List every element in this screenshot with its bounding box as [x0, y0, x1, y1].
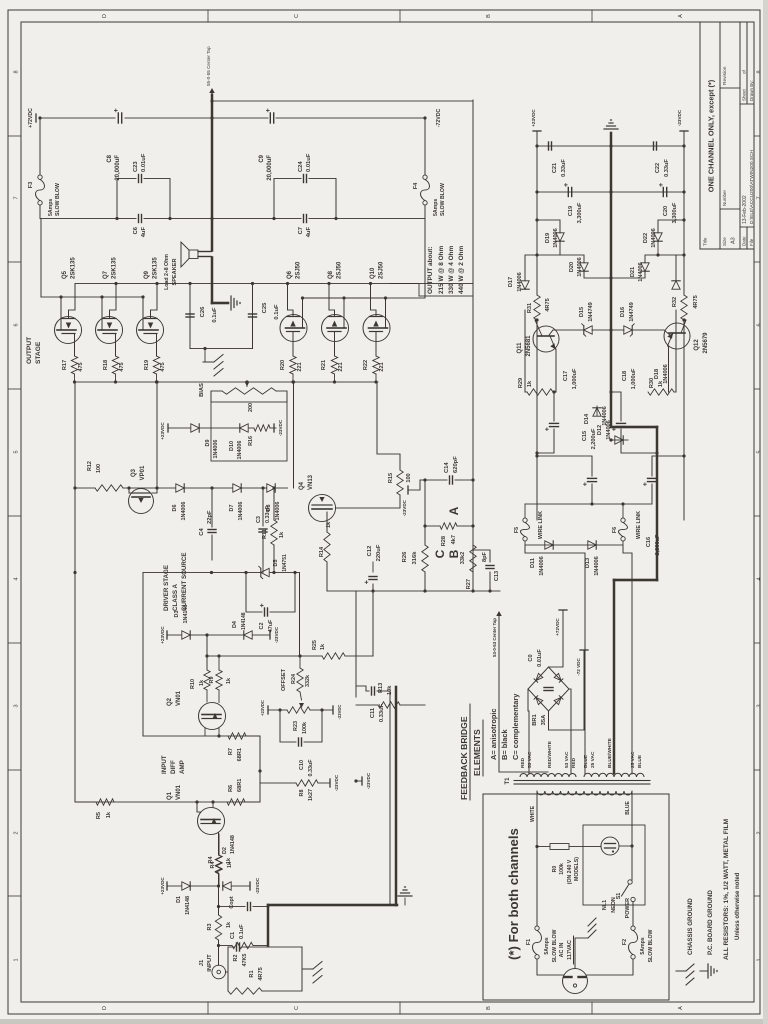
svg-text:2: 2: [757, 831, 763, 834]
svg-text:VN13: VN13: [308, 474, 314, 490]
svg-text:+23VDC: +23VDC: [160, 877, 165, 895]
-23VDC stub near C11: [361, 777, 363, 785]
transistor Q12 2N5679: [664, 323, 690, 349]
svg-text:1N4006: 1N4006: [213, 440, 219, 459]
transistor Q11 2N5681: [533, 326, 559, 352]
resistor R13 10k: [356, 704, 378, 706]
chassis ground at AC inlet: [575, 938, 588, 969]
svg-text:+23VDC: +23VDC: [531, 109, 536, 127]
output info box: [212, 100, 473, 102]
svg-text:8pF: 8pF: [482, 551, 488, 562]
svg-text:2SK135: 2SK135: [153, 257, 159, 279]
svg-text:C18: C18: [622, 371, 628, 381]
resistor R14 1k: [324, 532, 330, 562]
svg-text:OUTPUT: OUTPUT: [26, 337, 33, 364]
svg-text:Q4: Q4: [299, 481, 305, 490]
svg-text:R14: R14: [319, 546, 325, 557]
svg-text:5: 5: [14, 450, 20, 453]
svg-text:1k: 1k: [527, 380, 533, 387]
svg-text:1N4006: 1N4006: [663, 364, 669, 384]
svg-text:620pF: 620pF: [453, 456, 459, 473]
legend chassis ground symbol: [676, 970, 686, 972]
diode D17 1N4006: [525, 391, 527, 393]
svg-text:D14: D14: [584, 413, 590, 424]
svg-text:1k: 1k: [320, 644, 326, 650]
title block frame: [700, 22, 754, 249]
svg-text:2SJ50: 2SJ50: [379, 261, 385, 279]
transistor Q4 VN13: [309, 495, 336, 522]
svg-text:C20: C20: [663, 206, 669, 216]
capacitor C25 0.1uF: [252, 284, 254, 349]
speaker load symbol: [189, 250, 198, 259]
svg-text:475: 475: [119, 362, 125, 371]
svg-text:C25: C25: [262, 302, 268, 313]
capacitor C17 1000uF: [537, 429, 554, 453]
svg-text:-23VDC: -23VDC: [337, 705, 342, 720]
svg-text:R23: R23: [293, 721, 299, 731]
svg-text:1: 1: [14, 958, 20, 961]
resistor R30 1k: [667, 346, 670, 392]
svg-text:0.1uF: 0.1uF: [212, 307, 218, 323]
thick ground bus 55-0-55 center tap: [211, 258, 214, 304]
svg-text:2SJ50: 2SJ50: [296, 261, 302, 279]
svg-text:NL1: NL1: [602, 900, 608, 910]
capacitor C7 4uF: [303, 215, 305, 223]
svg-text:BLUE: BLUE: [625, 801, 631, 815]
capacitor C18 1000uF: [621, 429, 657, 453]
svg-text:DRIVER STAGE: DRIVER STAGE: [163, 565, 170, 611]
svg-text:(*) For both channels: (*) For both channels: [506, 828, 521, 960]
Q2 source wires: [204, 728, 206, 736]
svg-text:RED/WHITE: RED/WHITE: [547, 740, 553, 768]
svg-text:215 W @ 8 Ohm: 215 W @ 8 Ohm: [438, 246, 445, 294]
svg-text:Q1: Q1: [167, 791, 173, 800]
svg-text:CLASS A: CLASS A: [172, 584, 179, 611]
bias chain -23VDC: [273, 424, 275, 432]
svg-text:VN01: VN01: [176, 784, 182, 800]
svg-text:+72VDC: +72VDC: [28, 108, 34, 128]
svg-text:D21: D21: [630, 267, 636, 277]
svg-text:R26: R26: [402, 551, 408, 562]
wire F4 to output stage feed: [336, 205, 425, 219]
svg-text:4R75: 4R75: [545, 298, 551, 311]
Q1 drain bus: [75, 801, 260, 803]
svg-text:OUTPUT about:: OUTPUT about:: [427, 246, 434, 294]
svg-text:1k: 1k: [226, 858, 232, 864]
svg-text:Q12: Q12: [694, 339, 700, 351]
svg-text:F5: F5: [514, 527, 520, 533]
svg-text:R24: R24: [291, 674, 297, 684]
wire output box to bus: [210, 99, 213, 102]
svg-text:CURRENT SOURCE: CURRENT SOURCE: [181, 553, 188, 611]
svg-text:10k: 10k: [387, 685, 393, 695]
svg-text:53 VAC: 53 VAC: [527, 751, 533, 768]
capacitor C22 0.33uF: [611, 145, 684, 147]
svg-text:C3: C3: [256, 516, 262, 523]
zener D15 1N4749: [553, 329, 583, 331]
svg-text:C: C: [433, 549, 447, 558]
svg-text:-23VDC: -23VDC: [402, 499, 407, 516]
resistor R2 47K5: [217, 944, 220, 947]
filter caps C15 C16: [524, 504, 526, 518]
supply filter line with C6 C7: [117, 218, 136, 220]
input jack J1: [212, 965, 226, 979]
driver line to offset divider: [299, 573, 301, 657]
resistor R9 1k: [218, 690, 220, 703]
for both channels box: [483, 794, 669, 1000]
svg-text:F2: F2: [622, 939, 628, 945]
svg-text:4uF: 4uF: [141, 227, 147, 238]
svg-text:1N4749: 1N4749: [629, 302, 635, 322]
svg-text:53 VAC: 53 VAC: [564, 751, 570, 768]
svg-text:Revision: Revision: [722, 66, 728, 85]
capacitor C9 20,000uF: [212, 117, 268, 119]
svg-text:47K5: 47K5: [242, 954, 248, 967]
P-channel drain bus: [302, 297, 387, 299]
svg-text:Drawn By:: Drawn By:: [749, 80, 754, 101]
diode D21 1N4006: [611, 271, 645, 278]
resistor R31 4R75: [534, 295, 540, 320]
svg-text:2: 2: [14, 831, 20, 834]
svg-text:C8: C8: [107, 154, 113, 162]
svg-text:Sheet: Sheet: [742, 88, 747, 101]
svg-text:A: A: [678, 14, 684, 18]
resistor R16 200: [254, 425, 270, 431]
svg-text:D:\ELE\ACCU200\ATWIN200.SCH: D:\ELE\ACCU200\ATWIN200.SCH: [749, 149, 755, 224]
svg-text:33k2: 33k2: [460, 552, 466, 564]
svg-text:13-Feb-2002: 13-Feb-2002: [742, 195, 748, 224]
svg-text:100k: 100k: [559, 863, 565, 875]
resistor R25 1k: [207, 655, 322, 657]
svg-text:R13: R13: [378, 683, 384, 693]
resistor R4 1k: [218, 874, 220, 886]
svg-text:R25: R25: [312, 640, 318, 650]
svg-text:D: D: [102, 14, 108, 18]
svg-text:25 VAC: 25 VAC: [590, 751, 596, 768]
svg-text:SLOW BLOW: SLOW BLOW: [440, 183, 446, 216]
R1 C1 input ground network: [226, 971, 229, 973]
switch S1 POWER: [628, 880, 632, 884]
svg-text:1: 1: [757, 958, 763, 961]
svg-text:2SK135: 2SK135: [71, 257, 77, 279]
diode D10 1N4006: [240, 424, 248, 432]
svg-text:5Amps: 5Amps: [433, 199, 439, 216]
svg-text:R9: R9: [209, 677, 215, 684]
svg-text:220uF: 220uF: [376, 544, 382, 561]
legend PCB ground symbol: [700, 970, 708, 972]
capacitor C12 220uF: [372, 584, 374, 656]
svg-text:7: 7: [757, 196, 763, 199]
svg-text:0.01uF: 0.01uF: [537, 649, 543, 667]
svg-text:WIRE LINK: WIRE LINK: [636, 511, 642, 539]
diode D9 1N4006: [191, 424, 199, 432]
svg-text:117VAC: 117VAC: [567, 940, 573, 960]
svg-text:A: A: [447, 506, 461, 515]
transformer secondary winding 53VAC: [520, 774, 548, 778]
svg-text:Q5: Q5: [62, 270, 68, 279]
svg-text:D17: D17: [508, 277, 514, 287]
svg-text:-23VDC: -23VDC: [278, 419, 283, 436]
svg-text:332k: 332k: [305, 675, 311, 687]
svg-text:D5: D5: [273, 560, 279, 567]
neon lamp box: [583, 825, 645, 905]
svg-text:2SK135: 2SK135: [112, 257, 118, 279]
feedback bridge bottom rail: [327, 590, 500, 592]
svg-text:C: C: [294, 1006, 300, 1010]
svg-text:221: 221: [297, 362, 303, 371]
svg-text:C= complementary: C= complementary: [511, 693, 520, 760]
long output feedback line: [472, 100, 474, 591]
capacitor C10 0.33uF: [280, 710, 296, 742]
svg-text:D: D: [102, 1006, 108, 1010]
svg-text:R0: R0: [552, 866, 558, 873]
diff common node wires: [245, 771, 260, 802]
svg-text:55-0-55 Center Tap: 55-0-55 Center Tap: [206, 46, 211, 86]
svg-text:330 W @ 4 Ohm: 330 W @ 4 Ohm: [448, 246, 455, 294]
svg-text:0.01uF: 0.01uF: [141, 153, 147, 172]
capacitor C13 8pF: [489, 572, 491, 591]
resistor R5 1k: [96, 799, 114, 805]
svg-text:2N5681: 2N5681: [526, 335, 532, 357]
bias trimmer network box: [211, 402, 287, 461]
svg-text:D3: D3: [174, 611, 180, 618]
transistor Q1 VN01: [198, 808, 225, 835]
wire +72V rail junction to F3: [39, 118, 41, 175]
svg-text:4R75: 4R75: [258, 967, 264, 980]
svg-text:Q6: Q6: [287, 270, 293, 279]
svg-text:B: B: [486, 14, 492, 18]
primary BLUE wire: [631, 791, 633, 846]
fuse F3: [38, 201, 42, 205]
svg-text:Number: Number: [722, 189, 727, 206]
svg-text:0.33uF: 0.33uF: [561, 159, 567, 177]
svg-text:MODELS): MODELS): [574, 857, 580, 881]
svg-text:8: 8: [14, 70, 20, 73]
diode clamp D1 D2 at input: [166, 882, 168, 890]
diff tail bus: [143, 735, 260, 737]
svg-text:R21: R21: [321, 360, 327, 370]
svg-text:-23VDC: -23VDC: [334, 774, 339, 791]
svg-text:R1: R1: [249, 970, 255, 977]
resistor R8 1k27: [260, 771, 296, 783]
svg-text:8: 8: [757, 70, 763, 73]
thick regulator ground rail: [610, 133, 613, 426]
svg-text:1N4749: 1N4749: [588, 302, 594, 322]
svg-text:S1: S1: [616, 893, 622, 900]
svg-text:100: 100: [96, 464, 102, 473]
zener D16 1N4749: [624, 326, 632, 334]
svg-text:2SJ50: 2SJ50: [337, 261, 343, 279]
svg-text:440 W @ 2 Ohm: 440 W @ 2 Ohm: [458, 246, 465, 294]
svg-text:INPUT: INPUT: [161, 755, 168, 774]
svg-text:D13: D13: [585, 558, 591, 568]
svg-text:Copt: Copt: [229, 896, 235, 908]
svg-text:SPEAKER: SPEAKER: [172, 258, 178, 285]
svg-text:STAGE: STAGE: [35, 341, 42, 364]
svg-text:D2: D2: [222, 847, 228, 854]
svg-text:B: B: [447, 549, 461, 558]
capacitor C21 0.33uF: [537, 145, 611, 147]
transistor Q3 VP01: [129, 489, 154, 514]
svg-text:25 VAC: 25 VAC: [630, 751, 636, 768]
transistor Q8 2SJ50: [322, 315, 349, 342]
svg-text:4: 4: [757, 577, 763, 580]
bias pot: [211, 391, 222, 402]
svg-text:316k: 316k: [412, 551, 418, 565]
svg-text:20,000uF: 20,000uF: [115, 155, 121, 181]
resistor R27 33k2: [470, 545, 476, 572]
svg-text:1N4006: 1N4006: [638, 262, 644, 282]
svg-text:C11: C11: [370, 707, 376, 718]
zone ticks horizontal margins: [207, 1002, 209, 1014]
fuse F1: [535, 955, 539, 959]
-23VDC rail: [680, 130, 688, 132]
svg-text:+23VDC: +23VDC: [260, 700, 265, 716]
svg-text:Q7: Q7: [103, 270, 109, 279]
svg-text:-23VDC: -23VDC: [255, 877, 260, 894]
svg-text:AC IN: AC IN: [559, 943, 565, 958]
diode D22 1N4006: [657, 241, 659, 255]
svg-text:5Amps: 5Amps: [640, 937, 646, 954]
bridge AC wires from 53VAC: [528, 689, 529, 774]
svg-text:A3: A3: [731, 237, 737, 244]
-23VDC stub below R8: [329, 779, 331, 787]
svg-text:-23VDC: -23VDC: [274, 626, 279, 643]
wire tail to feedback node: [142, 573, 144, 737]
svg-text:C21: C21: [552, 163, 558, 173]
svg-text:RED: RED: [520, 757, 526, 768]
svg-text:DIFF: DIFF: [170, 760, 177, 774]
center tap arrow to bridge area: [499, 616, 548, 772]
svg-text:R22: R22: [363, 360, 369, 370]
svg-text:File: File: [749, 238, 754, 246]
resistor R28 4k7 and node A: [425, 525, 440, 527]
svg-text:1N4006: 1N4006: [577, 257, 583, 277]
transformer primary winding: [537, 791, 584, 795]
svg-text:221: 221: [338, 362, 344, 371]
svg-text:Size: Size: [722, 237, 727, 246]
svg-text:D11: D11: [530, 558, 536, 568]
svg-text:Q10: Q10: [370, 267, 376, 279]
diode D20 1N4006: [584, 271, 611, 278]
svg-text:53-0-53 Center Tap: 53-0-53 Center Tap: [492, 618, 497, 657]
svg-text:221: 221: [379, 362, 385, 371]
svg-text:1N4148: 1N4148: [185, 896, 191, 915]
capacitor C14 620pF: [420, 479, 447, 481]
svg-text:D18: D18: [654, 369, 660, 379]
wire F4 feed to P drain bus: [302, 219, 425, 299]
+23VDC rail: [533, 130, 541, 132]
svg-text:D20: D20: [569, 262, 575, 272]
svg-text:A= anisotropic: A= anisotropic: [489, 708, 498, 760]
resistor R0 100k box style: [535, 845, 538, 848]
svg-text:C13: C13: [494, 571, 500, 581]
svg-text:6: 6: [757, 323, 763, 326]
svg-text:C22: C22: [655, 163, 661, 173]
svg-text:R16: R16: [248, 436, 254, 446]
wire link F6: [621, 537, 625, 541]
svg-text:1N4006: 1N4006: [275, 502, 281, 521]
svg-text:1N4148: 1N4148: [241, 612, 247, 630]
svg-text:1N4751: 1N4751: [282, 554, 288, 572]
svg-text:1N4006: 1N4006: [594, 556, 600, 576]
thick ground run input area: [267, 905, 270, 946]
svg-text:OFFSET: OFFSET: [281, 668, 287, 691]
svg-text:1k: 1k: [226, 922, 232, 928]
wire F3 to output stage feed: [40, 205, 117, 219]
zener D5 1N4751: [261, 568, 269, 576]
svg-text:0.33uF: 0.33uF: [308, 759, 314, 777]
capacitor C2 47uF: [246, 573, 262, 613]
svg-text:-23VDC: -23VDC: [366, 772, 371, 789]
source output bus vertical: [75, 381, 379, 383]
svg-text:R20: R20: [280, 360, 286, 370]
wire F3 feed to N drain bus: [40, 219, 42, 298]
svg-text:POWER: POWER: [625, 898, 631, 918]
svg-text:C15: C15: [582, 431, 588, 441]
svg-text:0.33uF: 0.33uF: [379, 703, 385, 722]
svg-text:1N4006: 1N4006: [539, 556, 545, 576]
diode D19 1N4006: [537, 241, 560, 255]
25VAC wires to wire links: [525, 545, 585, 774]
svg-text:C7: C7: [298, 227, 304, 234]
svg-text:C23: C23: [133, 161, 139, 172]
capacitor C26 0.1uF: [189, 284, 191, 349]
svg-text:4uF: 4uF: [306, 227, 312, 238]
svg-text:SLOW BLOW: SLOW BLOW: [552, 929, 558, 962]
svg-text:C26: C26: [200, 306, 206, 317]
bridge +72VDC stub: [549, 610, 564, 667]
svg-text:ALL RESISTORS: 1%, 1/2 WATT, M: ALL RESISTORS: 1%, 1/2 WATT, METAL FILM: [723, 818, 730, 960]
zone ticks vertical margins: [8, 895, 21, 897]
svg-text:3: 3: [14, 704, 20, 707]
svg-text:R17: R17: [62, 360, 68, 370]
capacitor C0 0.01uF across bridge: [544, 690, 553, 692]
svg-text:C9: C9: [259, 154, 265, 162]
svg-text:D9: D9: [205, 440, 211, 447]
svg-text:-23VDC: -23VDC: [677, 109, 682, 126]
svg-text:C24: C24: [298, 161, 304, 172]
svg-text:0.01uF: 0.01uF: [306, 153, 312, 172]
svg-text:2N5679: 2N5679: [703, 332, 709, 354]
thick ground jog to transformer: [611, 426, 657, 429]
svg-text:(ON 240 V: (ON 240 V: [567, 859, 573, 884]
svg-text:1N4148: 1N4148: [230, 835, 236, 854]
svg-text:R19: R19: [144, 360, 150, 370]
N-channel drain bus: [41, 296, 144, 298]
capacitor C23 0.01uF parallel branch: [117, 179, 136, 219]
svg-text:100k: 100k: [302, 722, 308, 734]
svg-text:C10: C10: [299, 760, 305, 770]
pot R23 100k: [267, 706, 269, 714]
bias diode string feed top: [156, 382, 158, 488]
transformer core: [514, 783, 650, 785]
svg-text:WIRE LINK: WIRE LINK: [538, 511, 544, 539]
svg-text:4: 4: [14, 577, 20, 580]
svg-text:1N4006: 1N4006: [651, 228, 657, 248]
transistor Q5 2SK135: [55, 317, 82, 344]
transistor Q7 2SK135: [96, 317, 123, 344]
PCB ground at input bus: [404, 898, 406, 905]
svg-text:SLOW BLOW: SLOW BLOW: [648, 929, 654, 962]
capacitor C24 0.01uF parallel branch: [274, 179, 301, 219]
svg-text:R8: R8: [299, 790, 305, 797]
svg-text:R10: R10: [190, 679, 196, 689]
resistor R24 332k: [297, 668, 303, 692]
svg-text:-72 VDC: -72 VDC: [576, 658, 581, 676]
resistor R32 4R75: [681, 295, 687, 320]
svg-text:C1: C1: [230, 932, 236, 939]
